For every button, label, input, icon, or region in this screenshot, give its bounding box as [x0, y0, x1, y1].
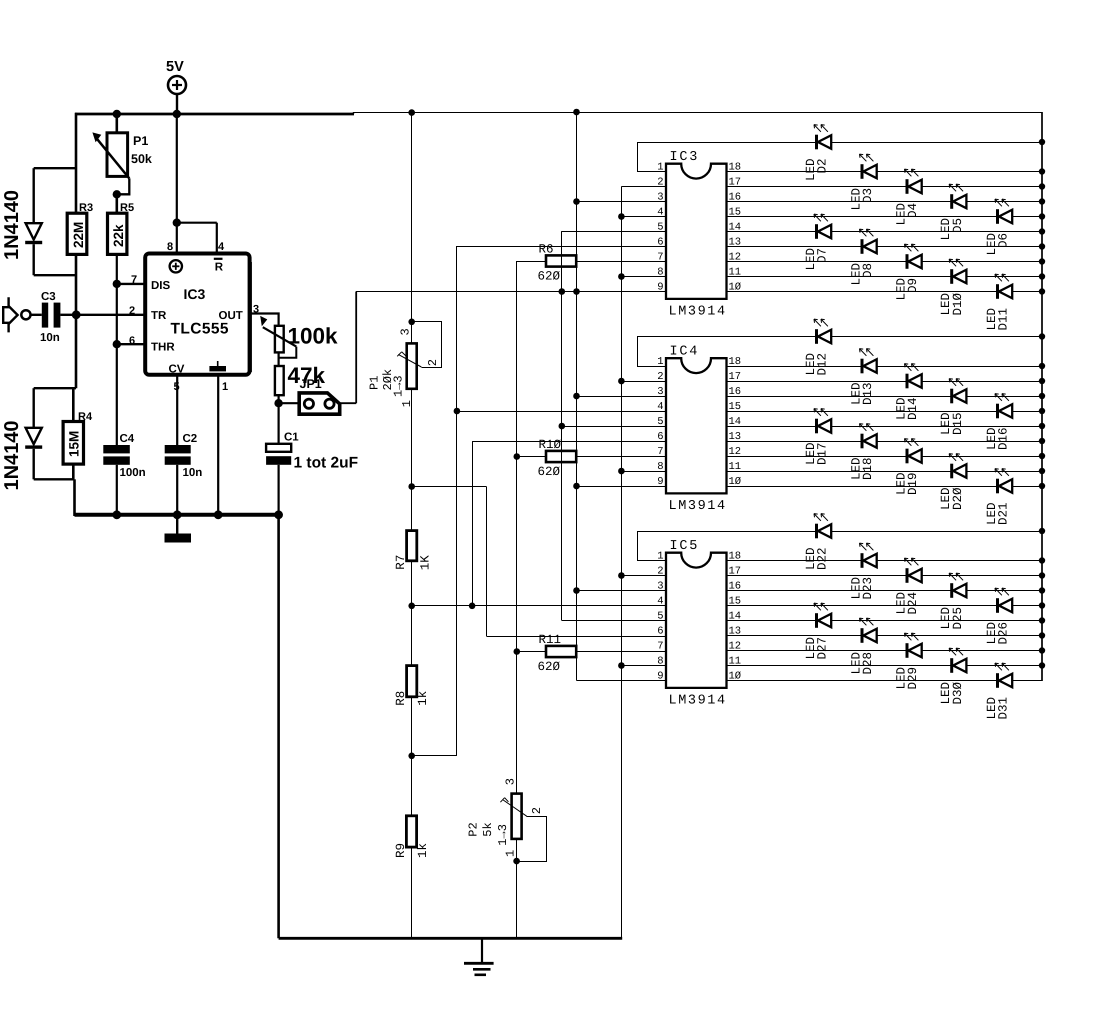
LED D29 — [905, 633, 922, 658]
svg-text:IC4: IC4 — [670, 345, 700, 360]
svg-text:1K: 1K — [419, 555, 433, 571]
audio input symbol — [3, 297, 30, 332]
wire to LED D7 — [727, 231, 817, 233]
wire 555 ground rail — [75, 513, 279, 517]
wire LED D5 to bus — [966, 201, 1042, 203]
svg-text:5V: 5V — [166, 59, 184, 75]
label LED D19 — [895, 473, 921, 496]
wire to LED D20 — [727, 471, 952, 473]
junction bus row D6 — [1039, 213, 1045, 219]
wire LED D25 to bus — [966, 590, 1042, 592]
chip IC4 LM3914 body — [666, 345, 727, 515]
junction P2 bottom — [513, 858, 520, 865]
junction bus row D15 — [1039, 393, 1045, 399]
capacitor C1 1-2uF — [266, 403, 358, 516]
junction bus row D25 — [1039, 587, 1045, 593]
wire to LED D30 — [727, 665, 952, 667]
svg-text:1→3: 1→3 — [496, 824, 510, 846]
label LED D2 — [804, 159, 830, 182]
svg-text:THR: THR — [151, 342, 175, 354]
svg-text:D12: D12 — [816, 353, 830, 376]
label LED D13 — [850, 383, 876, 406]
junction signal/IC3 pin9 row — [559, 288, 566, 295]
junction rail/C4 — [112, 510, 121, 519]
wire LED D3 to bus — [877, 171, 1042, 173]
svg-text:TLC555: TLC555 — [171, 321, 229, 338]
svg-text:1: 1 — [657, 550, 663, 562]
IC3 right pin numbers 18-10 — [729, 161, 742, 293]
wire to LED D16 — [727, 411, 998, 413]
chip IC5 LM3914 body — [666, 539, 727, 709]
LED D12 — [814, 319, 831, 344]
svg-text:1 tot 2uF: 1 tot 2uF — [294, 455, 359, 472]
label P1 terminal 3 — [399, 328, 413, 335]
junction gnd/IC3 pin4 — [618, 213, 625, 220]
junction gnd/IC5 pin8 — [618, 662, 625, 669]
junction bus row D16 — [1039, 408, 1045, 414]
svg-text:D31: D31 — [997, 697, 1011, 720]
junction bus row D3 — [1039, 168, 1045, 174]
svg-text:D26: D26 — [997, 622, 1011, 645]
wire LED D18 to bus — [877, 441, 1042, 443]
resistor R4 15M — [63, 411, 93, 479]
junction R10 left — [514, 453, 521, 460]
op-amp/timer IC3 TLC555 body — [145, 254, 251, 376]
svg-text:D23: D23 — [861, 577, 875, 600]
junction bus row D18 — [1039, 438, 1045, 444]
junction P1-50k bottom — [113, 190, 121, 198]
wire V+ bus — [577, 112, 667, 681]
svg-text:D25: D25 — [951, 607, 965, 630]
svg-text:D27: D27 — [816, 637, 830, 660]
wire IC4 pin3 stub — [577, 396, 667, 398]
junction signal/IC4 pin5 — [559, 423, 566, 430]
svg-text:D3Ø: D3Ø — [951, 682, 965, 705]
label LED D4 — [895, 203, 921, 226]
label LED D24 — [895, 592, 921, 615]
wire to LED D23 — [727, 560, 862, 562]
wire to LED D6 — [727, 216, 998, 218]
junction 5V/pin8 column — [173, 110, 181, 118]
wire to LED D13 — [727, 366, 862, 368]
svg-text:1k: 1k — [416, 843, 430, 858]
wire node to IC3-pin6 riser — [412, 755, 457, 757]
resistor R3 22M — [67, 202, 93, 254]
svg-text:R: R — [215, 261, 224, 273]
wire LED D6 to bus — [1012, 216, 1042, 218]
wire LED D30 to bus — [966, 665, 1042, 667]
svg-text:LM3914: LM3914 — [669, 499, 727, 514]
svg-text:R7: R7 — [394, 555, 408, 570]
resistor 47k — [275, 363, 326, 395]
junction rail/pin1 — [214, 510, 223, 519]
LED D25 — [949, 573, 966, 598]
junction bus row D12 — [1039, 333, 1045, 339]
wire node to JP1 — [279, 402, 299, 404]
svg-text:D19: D19 — [906, 473, 920, 496]
wire JP1 to signal riser — [340, 292, 356, 404]
potentiometer P1 50k — [92, 114, 152, 194]
wire R11 node to P2 — [516, 652, 518, 794]
svg-text:D15: D15 — [951, 413, 965, 436]
junction rail/C1 — [274, 510, 283, 519]
label LED D8 — [850, 263, 876, 286]
svg-text:D2Ø: D2Ø — [951, 487, 965, 510]
svg-text:1: 1 — [657, 356, 663, 368]
junction bus row D20 — [1039, 468, 1045, 474]
wire LED supply bus — [1041, 112, 1043, 681]
wire DIS to IC3 pin7 — [117, 283, 145, 285]
junction riser/IC4 pin4 — [454, 408, 461, 415]
wire to LED D11 — [727, 291, 998, 293]
svg-text:D13: D13 — [861, 383, 875, 406]
wire R3 bottom to TR node — [75, 254, 78, 315]
wire to LED D24 — [727, 575, 907, 577]
wire IC4-pin6 riser — [472, 442, 666, 606]
junction 5V/P1-50k — [113, 110, 121, 118]
wire ground bus — [621, 187, 666, 939]
wire to LED D17 — [727, 426, 817, 428]
wire LED D23 to bus — [877, 560, 1042, 562]
ground bar symbol — [165, 515, 192, 543]
label pin 3 — [253, 304, 259, 316]
svg-text:IC3: IC3 — [184, 286, 206, 302]
wire R8 — [411, 606, 413, 666]
junction bus row D17 — [1039, 423, 1045, 429]
LED D3 — [860, 154, 877, 179]
wire LED D11 to bus — [1012, 291, 1042, 293]
wire LED D20 to bus — [966, 471, 1042, 473]
label pin 7 — [131, 274, 137, 286]
label LED D29 — [895, 667, 921, 690]
junction R8/R9 node — [408, 753, 415, 760]
label 1N4140 (D1) — [1, 190, 23, 260]
IC5 right pin numbers 18-10 — [729, 550, 742, 682]
junction JP1 node — [274, 399, 282, 407]
LED D22 — [814, 514, 831, 539]
label LED D20 — [939, 487, 965, 510]
junction V+/IC4 pin3 — [573, 393, 580, 400]
resistor R10 620 — [517, 438, 666, 479]
LED D20 — [949, 454, 966, 479]
svg-text:R1Ø: R1Ø — [539, 438, 562, 452]
wire to LED D2 — [637, 142, 816, 144]
label LED D26 — [985, 622, 1011, 645]
wire IC3 pin3 stub — [577, 201, 667, 203]
svg-text:9: 9 — [657, 281, 663, 293]
svg-text:D22: D22 — [816, 548, 830, 571]
wire to LED D29 — [727, 650, 907, 652]
IC5 left pin numbers 1-9 — [657, 550, 663, 682]
IC3 left pin numbers 1-9 — [657, 161, 663, 293]
wire LED D24 to bus — [922, 575, 1042, 577]
wire 5V rail down to R3 — [75, 113, 78, 213]
LED D30 — [949, 648, 966, 673]
label LED D14 — [895, 398, 921, 421]
wire IC3 pin4 stub — [621, 216, 666, 218]
label 1N4140 (D2) — [1, 420, 23, 490]
IC4 left pin numbers 1-9 — [657, 356, 663, 488]
wire to LED D26 — [727, 605, 998, 607]
svg-text:TR: TR — [151, 310, 167, 322]
wire signal bus — [356, 231, 666, 620]
wire IC4 pin1 loop — [637, 337, 666, 367]
svg-text:1N4140: 1N4140 — [1, 420, 23, 490]
svg-text:7: 7 — [131, 274, 137, 286]
wire LED D9 to bus — [922, 261, 1042, 263]
junction DIS — [113, 280, 121, 288]
junction P1 bottom node — [408, 483, 415, 490]
wire THR to IC3 pin6 — [117, 343, 145, 345]
svg-text:6: 6 — [657, 431, 663, 443]
resistor R9 1k — [394, 816, 430, 939]
LED D28 — [860, 618, 877, 643]
wire to LED D22 — [637, 531, 816, 533]
junction bus row D26 — [1039, 602, 1045, 608]
wire LED D29 to bus — [922, 650, 1042, 652]
wire to LED D27 — [727, 620, 817, 622]
wire 5V rail (right thin) — [353, 112, 1042, 114]
svg-text:D17: D17 — [816, 443, 830, 466]
svg-text:D1Ø: D1Ø — [951, 293, 965, 316]
svg-text:2: 2 — [657, 176, 663, 188]
label LED D15 — [939, 413, 965, 436]
wire P1 to R5 — [116, 194, 119, 213]
wire LED D4 to bus — [922, 186, 1042, 188]
wire to LED D28 — [727, 635, 862, 637]
LED D4 — [905, 169, 922, 194]
svg-text:6: 6 — [657, 236, 663, 248]
junction bus row D7 — [1039, 228, 1045, 234]
junction THR — [113, 340, 121, 348]
wire LED D19 to bus — [922, 456, 1042, 458]
label LED D11 — [985, 308, 1011, 331]
svg-text:D16: D16 — [997, 428, 1011, 451]
wire to LED D21 — [727, 486, 998, 488]
potentiometer P2 5k — [500, 794, 546, 939]
svg-text:1k: 1k — [416, 691, 430, 706]
junction bus row D28 — [1039, 632, 1045, 638]
wire C1 column to bottom rail — [277, 515, 280, 939]
junction gnd/IC5 pin2 — [618, 572, 625, 579]
LED D6 — [995, 199, 1012, 224]
capacitor C3 10n — [31, 291, 73, 344]
wire node to IC5 pin4 — [412, 605, 666, 607]
svg-text:6: 6 — [129, 335, 135, 347]
LED D27 — [814, 603, 831, 628]
wire LED D2 to bus — [831, 142, 1042, 144]
svg-text:LM3914: LM3914 — [669, 305, 727, 320]
svg-text:7: 7 — [657, 251, 663, 263]
svg-text:4: 4 — [218, 241, 225, 253]
wire LED D16 to bus — [1012, 411, 1042, 413]
svg-text:R6: R6 — [539, 243, 554, 257]
svg-text:22M: 22M — [71, 222, 86, 248]
label LED D6 — [985, 233, 1011, 256]
junction bus row D5 — [1039, 198, 1045, 204]
resistor R7 1K — [394, 531, 432, 606]
svg-text:D8: D8 — [861, 263, 875, 278]
svg-text:62Ø: 62Ø — [538, 270, 561, 284]
svg-text:D28: D28 — [861, 652, 875, 675]
wire P1 bottom to IC5-pin6 riser — [412, 486, 487, 488]
potentiometer P1 20k — [397, 322, 441, 487]
wire IC5 pin2 stub — [621, 575, 666, 577]
label LED D28 — [850, 652, 876, 675]
svg-text:62Ø: 62Ø — [538, 660, 561, 674]
junction bus row D10 — [1039, 273, 1045, 279]
wire to LED D15 — [727, 396, 952, 398]
LED D2 — [814, 125, 831, 150]
label pin 6 — [129, 335, 135, 347]
wire LED D14 to bus — [922, 381, 1042, 383]
svg-text:1: 1 — [504, 850, 518, 857]
resistor R5 22k — [108, 202, 135, 254]
wire to LED D25 — [727, 590, 952, 592]
svg-text:D3: D3 — [861, 188, 875, 203]
label pin 1 — [222, 381, 228, 393]
svg-text:100n: 100n — [120, 467, 146, 479]
wire LED D31 to bus — [1012, 680, 1042, 682]
LED D21 — [995, 469, 1012, 494]
LED D10 — [949, 259, 966, 284]
label pin 8 — [167, 241, 173, 253]
wire IC4 pin8 stub — [621, 471, 666, 473]
wire to LED D31 — [727, 680, 998, 682]
capacitor C4 100n — [103, 433, 145, 516]
label LED D23 — [850, 577, 876, 600]
svg-text:1N4140: 1N4140 — [1, 190, 23, 260]
wire TR node to IC3 pin2 — [76, 314, 145, 316]
wire to LED D8 — [727, 246, 862, 248]
wire LED D28 to bus — [877, 635, 1042, 637]
label P2 terminal 2 — [530, 807, 544, 814]
label LED D7 — [804, 248, 830, 271]
LED D9 — [905, 244, 922, 269]
LED D24 — [905, 558, 922, 583]
label LED D22 — [804, 548, 830, 571]
wire LED D12 to bus — [831, 336, 1042, 338]
svg-text:10n: 10n — [40, 332, 60, 344]
LED D31 — [995, 663, 1012, 688]
LED D18 — [860, 424, 877, 449]
svg-text:P1: P1 — [133, 134, 148, 148]
label LED D25 — [939, 607, 965, 630]
label LED D10 — [939, 293, 965, 316]
label P1 20k — [368, 369, 406, 397]
svg-text:IC3: IC3 — [670, 150, 700, 165]
junction bus row D19 — [1039, 453, 1045, 459]
resistor R6 620 — [517, 243, 666, 284]
wire P1 node to R7 — [411, 487, 413, 531]
svg-text:2: 2 — [129, 305, 135, 317]
junction TR node — [72, 310, 81, 319]
wire IC5 pin1 loop — [637, 531, 666, 561]
wire IC3 pin1 loop — [637, 142, 666, 172]
wire to LED D19 — [727, 456, 907, 458]
wire to LED D5 — [727, 201, 952, 203]
wire IC3 pin5 stub — [562, 231, 666, 233]
svg-text:6: 6 — [657, 625, 663, 637]
junction IC4-pin6 riser/node — [469, 603, 476, 610]
label P2 terminal 3 — [504, 778, 518, 785]
LED D5 — [949, 184, 966, 209]
wire IC4 pin2 stub — [621, 381, 666, 383]
wire LED D17 to bus — [831, 426, 1042, 428]
wire LED D22 to bus — [831, 531, 1042, 533]
svg-text:C3: C3 — [41, 291, 56, 303]
wire pin1 to ground rail — [217, 375, 219, 516]
wire CV pin5 to C2 — [176, 375, 178, 445]
wire to LED D12 — [637, 336, 816, 338]
junction bus row D13 — [1039, 363, 1045, 369]
junction bus row D30 — [1039, 662, 1045, 668]
junction V+/IC3 pin3 — [573, 198, 580, 205]
junction V+/IC4 pin9 — [573, 483, 580, 490]
svg-text:4: 4 — [657, 595, 663, 607]
LED D26 — [995, 588, 1012, 613]
svg-text:3: 3 — [504, 778, 518, 785]
LED D8 — [860, 229, 877, 254]
svg-text:R8: R8 — [394, 691, 408, 706]
potentiometer 100k — [260, 316, 338, 358]
svg-text:C1: C1 — [284, 432, 299, 444]
junction 5V/V+ bus — [573, 109, 580, 116]
junction bus row D9 — [1039, 258, 1045, 264]
wire R5 bottom to C4 — [116, 254, 118, 445]
wire IC5 pin3 stub — [577, 590, 667, 592]
wire R6-chain bus — [516, 261, 518, 652]
LED D23 — [860, 543, 877, 568]
wire 5V rail (left thick) — [75, 112, 354, 114]
wire to LED D14 — [727, 381, 907, 383]
wire to LED D4 — [727, 186, 907, 188]
svg-text:D14: D14 — [906, 398, 920, 421]
svg-text:LM3914: LM3914 — [669, 694, 727, 709]
junction P1-20k top — [408, 319, 415, 326]
svg-text:D24: D24 — [906, 592, 920, 615]
svg-text:IC5: IC5 — [670, 539, 700, 554]
junction V+/IC3 pin9 row — [573, 288, 580, 295]
svg-text:R9: R9 — [394, 843, 408, 858]
wire 5V to pin8/pin4 — [177, 114, 217, 254]
junction bus row D21 — [1039, 483, 1045, 489]
wire 5V to P1-20k — [411, 112, 413, 322]
label LED D27 — [804, 637, 830, 660]
label P1 terminal 1 — [400, 400, 414, 407]
svg-text:P1: P1 — [368, 376, 382, 390]
diode D2 1N4140 — [25, 388, 76, 479]
label LED D5 — [939, 218, 965, 241]
junction bus row D24 — [1039, 572, 1045, 578]
LED D14 — [905, 364, 922, 389]
wire LED D10 to bus — [966, 276, 1042, 278]
svg-text:7: 7 — [657, 640, 663, 652]
svg-text:D6: D6 — [997, 233, 1011, 248]
label LED D16 — [985, 428, 1011, 451]
svg-text:2: 2 — [426, 359, 440, 366]
junction bus row D22 — [1039, 528, 1045, 534]
wire LED D21 to bus — [1012, 486, 1042, 488]
svg-text:1: 1 — [657, 161, 663, 173]
chip IC3 LM3914 body — [666, 150, 727, 320]
wire LED D27 to bus — [831, 620, 1042, 622]
label LED D12 — [804, 353, 830, 376]
svg-text:5k: 5k — [481, 822, 495, 836]
junction bus row D29 — [1039, 647, 1045, 653]
wire LED D26 to bus — [1012, 605, 1042, 607]
svg-text:D18: D18 — [861, 458, 875, 481]
